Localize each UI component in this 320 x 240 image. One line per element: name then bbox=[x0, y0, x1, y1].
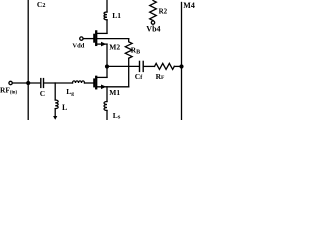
resistor R2 bbox=[150, 1, 157, 21]
inductor L1 bbox=[106, 0, 108, 12]
svg-text:Ls: Ls bbox=[113, 111, 121, 120]
wire: Cf to RF bbox=[144, 65, 155, 67]
wire: M1 drain up to node A bbox=[106, 67, 108, 78]
wire: node A to Cf bbox=[107, 65, 139, 67]
svg-text:RF(in): RF(in) bbox=[0, 85, 17, 95]
wire: cap C to Lg with tap at node bbox=[44, 82, 73, 84]
node RF(in) input terminal bbox=[9, 81, 12, 84]
svg-text:RB: RB bbox=[131, 46, 140, 56]
svg-text:L1: L1 bbox=[112, 11, 121, 20]
node junction dot on M4 rail bbox=[179, 64, 183, 68]
svg-text:R2: R2 bbox=[159, 8, 168, 16]
node Vdd terminal at M2 gate bbox=[80, 37, 83, 40]
wire: node A up to M2 source bbox=[106, 44, 108, 66]
wire: Lg to M1 gate bbox=[85, 82, 94, 84]
svg-text:M2: M2 bbox=[109, 43, 120, 52]
transistor M1 bbox=[93, 79, 95, 86]
svg-text:Cf: Cf bbox=[135, 72, 143, 81]
svg-text:M4: M4 bbox=[183, 1, 195, 10]
svg-text:C2: C2 bbox=[37, 0, 46, 9]
svg-text:Vdd: Vdd bbox=[72, 43, 84, 50]
wire: input wire to cap C bbox=[12, 82, 40, 84]
inductor L (shunt to ground) bbox=[54, 83, 56, 100]
capacitor C bbox=[40, 79, 42, 88]
capacitor Cf bbox=[139, 61, 141, 71]
resistor RF (feedback) bbox=[155, 63, 175, 69]
svg-text:Lg: Lg bbox=[66, 87, 74, 97]
node junction dot at left rail bbox=[26, 81, 30, 85]
transistor M2 bbox=[93, 35, 95, 42]
wire: M4 drain rail bbox=[181, 3, 183, 121]
capacitor C2 label bbox=[37, 0, 46, 9]
wire: RF to M4 rail bbox=[174, 65, 181, 67]
wire: left vertical rail (C2 branch) bbox=[27, 0, 29, 120]
inductor Lg bbox=[73, 81, 85, 83]
resistor RB bbox=[125, 39, 132, 59]
svg-text:L: L bbox=[62, 103, 67, 112]
svg-text:RF: RF bbox=[156, 72, 165, 81]
svg-text:M1: M1 bbox=[109, 88, 120, 97]
svg-text:Vb4: Vb4 bbox=[146, 25, 160, 34]
wire: RB down to M1 source line (crossover of Cf wire) bbox=[128, 58, 130, 87]
inductor Ls bbox=[106, 87, 108, 102]
node A junction dot bbox=[105, 64, 109, 68]
svg-text:C: C bbox=[40, 89, 45, 98]
node Vb4 terminal bbox=[151, 21, 154, 24]
